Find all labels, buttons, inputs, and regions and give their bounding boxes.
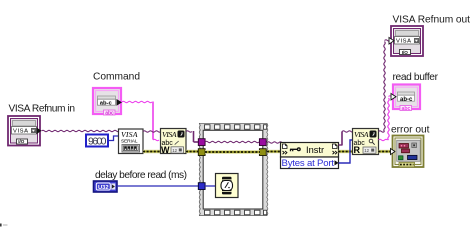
wire Command string to VISA Write	[122, 101, 159, 140]
wire read buffer Read to indicator	[379, 96, 392, 141]
Wait (ms) function icon	[216, 174, 239, 198]
svg-text:VISA: VISA	[396, 39, 411, 45]
svg-text:I/O: I/O	[18, 139, 25, 144]
svg-text:9600: 9600	[88, 135, 107, 147]
flat sequence structure frame	[199, 123, 268, 216]
svg-text:Instr: Instr	[306, 145, 324, 155]
svg-text:ab-c: ab-c	[100, 100, 113, 106]
VISA Read node	[353, 129, 379, 156]
error out cluster indicator icon	[391, 136, 424, 168]
property node Instr : Bytes at Port	[281, 143, 339, 170]
tunnel delay left (blue)	[198, 183, 205, 190]
wire error serial config to VISA Write	[143, 150, 161, 153]
Command string constant icon	[93, 88, 122, 116]
wire delay to Wait ms	[205, 185, 216, 187]
wire error Read to error out	[379, 150, 393, 153]
wire VISA resource property node to VISA Read	[339, 131, 355, 146]
svg-text:12: 12	[172, 148, 177, 153]
svg-text:R: R	[354, 145, 361, 155]
numeric constant U32 (delay)	[94, 181, 118, 192]
svg-text:delay before read (ms): delay before read (ms)	[95, 170, 187, 181]
svg-text:VISA: VISA	[354, 130, 369, 139]
svg-text:U32: U32	[98, 185, 109, 191]
tunnel error right (olive)	[259, 149, 266, 156]
wire VISA resource Write to sequence tunnel	[186, 131, 199, 142]
numeric constant 9600 (baud rate)	[86, 135, 108, 148]
svg-text:I/O: I/O	[402, 50, 409, 55]
svg-text:Bytes at Port: Bytes at Port	[282, 158, 335, 169]
wire error Write to sequence tunnel	[186, 150, 199, 153]
wire VISA resource Read to VISA Refnum out	[379, 40, 391, 132]
VISA Refnum out indicator icon	[389, 26, 423, 56]
svg-text:read buffer: read buffer	[393, 72, 439, 83]
read buffer string indicator icon	[391, 85, 420, 113]
wire U32 delay to sequence tunnel	[117, 185, 199, 187]
wire error through sequence	[205, 150, 260, 153]
svg-text:VISA Refnum in: VISA Refnum in	[9, 104, 76, 115]
svg-text:12: 12	[364, 148, 369, 153]
stray mark bottom left	[0, 224, 2, 227]
svg-text:VISA: VISA	[162, 130, 177, 139]
VISA Refnum in control icon	[8, 116, 42, 146]
tunnel error left (olive)	[198, 149, 205, 156]
wire Bytes at Port count to VISA Read	[339, 140, 353, 163]
svg-text:VISA Refnum out: VISA Refnum out	[393, 15, 471, 26]
wire VISA refnum in to Configure Serial Port	[42, 130, 120, 131]
svg-text:ab-c: ab-c	[400, 97, 413, 103]
svg-text:abc: abc	[402, 106, 411, 112]
wire VISA resource serial config to VISA Write	[143, 131, 161, 132]
svg-text:abc: abc	[105, 110, 114, 116]
svg-text:error out: error out	[391, 125, 430, 136]
svg-text:VISA: VISA	[13, 129, 28, 135]
tunnel VISA right (purple)	[259, 139, 266, 146]
svg-text:VISA: VISA	[121, 130, 138, 139]
wire VISA resource sequence to property node	[267, 142, 282, 143]
VISA Configure Serial Port node	[119, 129, 144, 154]
tunnel VISA left (purple)	[198, 139, 205, 146]
svg-text:W: W	[161, 145, 170, 155]
VISA Write node	[161, 129, 187, 155]
wire VISA resource through sequence	[205, 141, 259, 142]
wire 9600 to Configure Serial Port	[109, 136, 119, 141]
wire error sequence to property node	[267, 150, 281, 153]
svg-text:Command: Command	[93, 72, 140, 83]
wire error property node to VISA Read	[339, 150, 353, 153]
svg-text:SERIAL: SERIAL	[121, 139, 138, 145]
